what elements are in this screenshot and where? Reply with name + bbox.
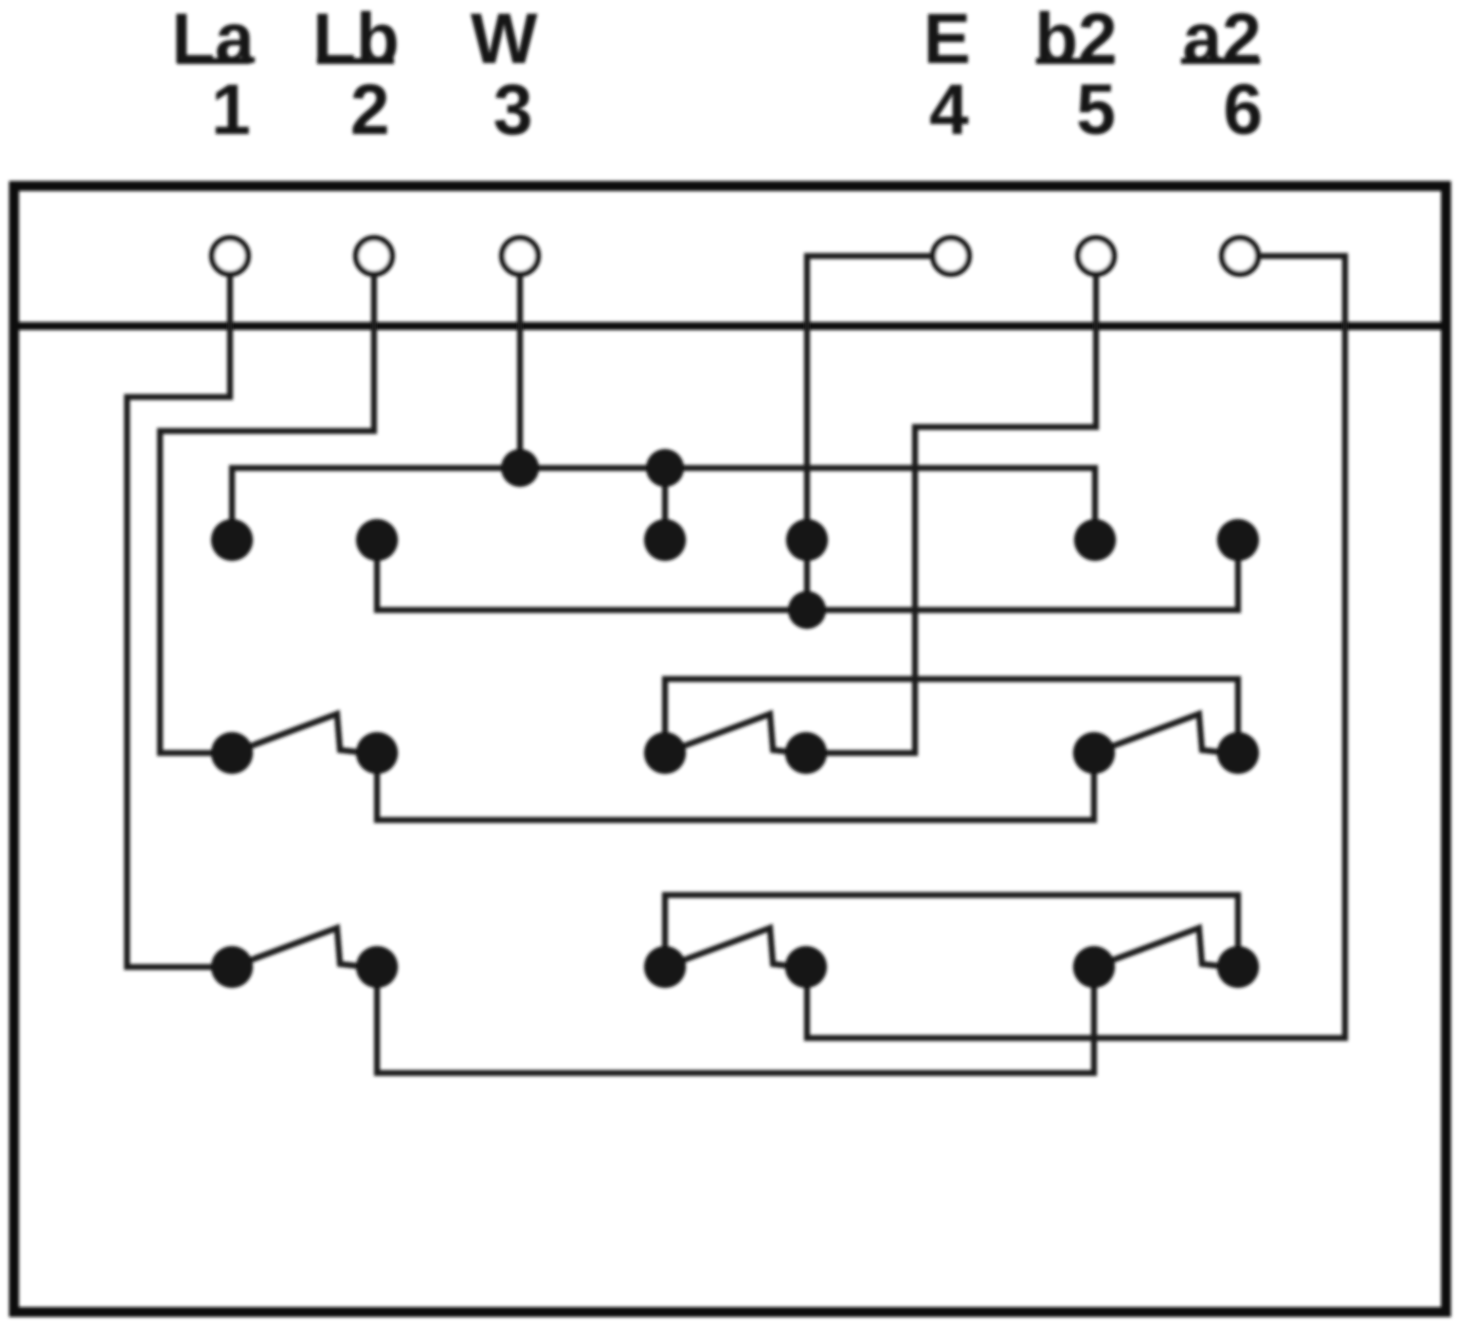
switch S6 right contact dot [1217,946,1259,988]
contact dot column3 row540 [644,519,686,561]
switch S2 left contact dot [644,732,686,774]
wire terminal4 E left and down to node row [807,256,932,610]
switch S3 left contact dot [1073,732,1115,774]
svg-text:b2: b2 [1035,0,1118,79]
svg-text:2: 2 [350,71,390,150]
wire bottom link row [377,967,1094,1073]
terminal 4 (E) circle [933,238,969,274]
terminal 6 (a2) circle [1222,238,1258,274]
svg-text:Lb: Lb [313,0,400,79]
contact dot column5 row540 [1074,519,1116,561]
switch S3 right contact dot [1217,732,1259,774]
switch S1 right contact dot [356,732,398,774]
switch S4 left contact dot [211,946,253,988]
wire W-net drop at column 3 [662,468,668,540]
label La [172,0,255,79]
switch S2 right contact dot [785,732,827,774]
switch S5 right contact dot [785,946,827,988]
terminal 5 (b2) circle [1078,238,1114,274]
junction dot column3 at net line [646,449,684,487]
wire bottom bracket connecting switch contacts [665,895,1238,967]
svg-text:3: 3 [493,71,533,150]
wire terminal6 a2 right and down to bottom-middle switch contact [807,256,1345,1038]
svg-text:6: 6 [1223,71,1263,150]
contact dot column1 row540 [211,519,253,561]
switch S2 arm (middle-middle) [665,714,791,753]
contact dot column6 row540 [1217,519,1259,561]
svg-text:a2: a2 [1183,0,1262,79]
junction dot W at net line [501,449,539,487]
switch S1 left contact dot [211,732,253,774]
svg-text:E: E [923,0,970,79]
switch S4 arm (bottom-left) [232,928,358,967]
svg-text:5: 5 [1076,71,1116,150]
switch S6 arm (bottom-right) [1094,928,1220,967]
terminal 1 (La) circle [212,238,248,274]
switch S5 arm (bottom-middle) [665,928,791,967]
wire E-net horizontal run with end risers [377,540,1238,610]
terminal 2 (Lb) circle [356,238,392,274]
svg-text:4: 4 [929,71,969,150]
svg-text:La: La [172,0,255,79]
terminal strip divider line [9,322,1451,330]
wire terminal5 b2 down to middle-middle switch contact [806,275,1096,753]
switch S4 right contact dot [356,946,398,988]
switch S6 left contact dot [1073,946,1115,988]
wire terminal3 W down to net node [517,275,523,468]
wire terminal2 Lb to middle-left switch contact [160,275,374,753]
terminal 3 (W) circle [502,238,538,274]
contact dot column4 row540 [786,519,828,561]
label a2 [1181,0,1261,79]
wire W-net horizontal run with end drops [232,468,1095,540]
switch S3 arm (middle-right) [1094,714,1220,753]
switch S1 arm (middle-left) [232,714,358,753]
wire middle bracket connecting switch contacts [665,679,1238,753]
label Lb [313,0,400,79]
junction dot E at lower net line [788,591,826,629]
svg-text:W: W [470,0,537,79]
contact dot column2 row540 [356,519,398,561]
svg-text:1: 1 [211,71,251,150]
wire terminal1 La to bottom-left switch contact [127,275,232,967]
switch S5 left contact dot [644,946,686,988]
wire middle link row [377,753,1094,820]
label b2 [1035,0,1118,79]
